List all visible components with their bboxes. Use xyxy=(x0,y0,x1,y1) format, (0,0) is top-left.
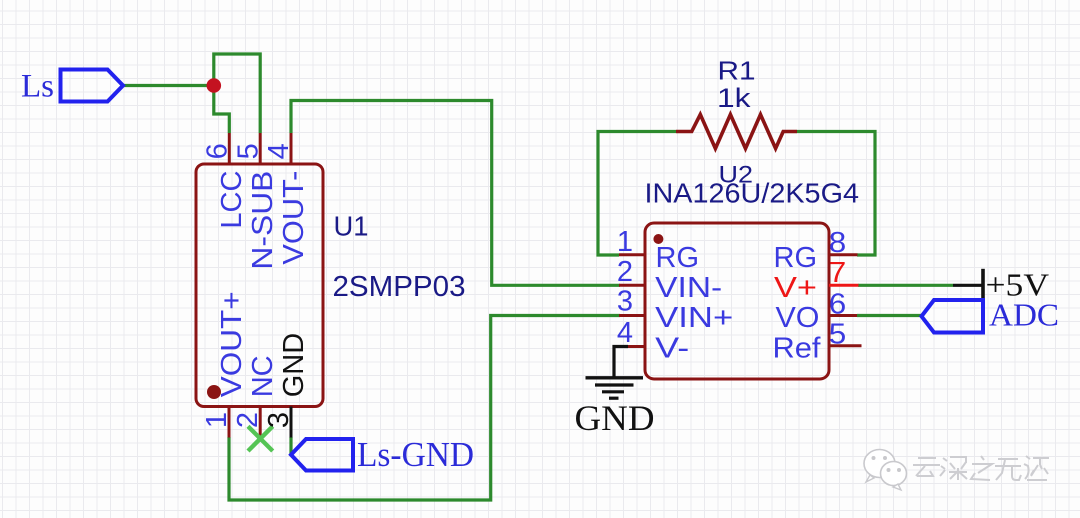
U2 pin 4 stub xyxy=(628,345,645,348)
svg-text:Ls-GND: Ls-GND xyxy=(357,435,474,474)
wire U2 pin 7 to +5V xyxy=(858,284,953,287)
U2 pin 2 stub xyxy=(619,284,645,287)
wire U1 pin 3 to Ls-GND port xyxy=(289,437,292,455)
svg-text:U1: U1 xyxy=(334,211,369,242)
svg-text:ADC: ADC xyxy=(989,297,1059,333)
U1 pin 1 stub xyxy=(228,407,231,438)
U2 pin 6 stub xyxy=(829,314,857,317)
svg-text:INA126U/2K5G4: INA126U/2K5G4 xyxy=(645,177,860,208)
U2 pin 8 stub xyxy=(829,253,858,256)
svg-text:VIN+: VIN+ xyxy=(655,302,733,334)
watermark wechat logo bubble 1 xyxy=(864,450,895,483)
svg-text:R1: R1 xyxy=(718,55,756,85)
svg-text:RG: RG xyxy=(774,242,818,274)
U1 pin 1 marker dot xyxy=(207,385,221,399)
wire U2 pin 6 to ADC port xyxy=(857,314,922,317)
power bar +5V xyxy=(953,269,983,300)
svg-text:VOUT-: VOUT- xyxy=(278,171,310,265)
port Ls-GND xyxy=(291,439,353,471)
svg-text:5: 5 xyxy=(232,143,264,159)
char 无 xyxy=(995,459,1021,480)
svg-text:Ls: Ls xyxy=(21,69,54,105)
ground symbol at U2 pin 4 xyxy=(586,347,644,399)
char 之 xyxy=(971,456,992,480)
U1 pin 5 stub xyxy=(259,133,262,164)
svg-text:6: 6 xyxy=(829,288,847,320)
svg-text:4: 4 xyxy=(617,317,633,349)
svg-text:7: 7 xyxy=(829,257,847,289)
watermark wechat logo bubble 2 xyxy=(881,462,907,491)
svg-text:2: 2 xyxy=(617,256,633,288)
U1 pin 6 stub xyxy=(228,133,231,164)
wire feedback left: U2 pin 1 RG up to resistor xyxy=(598,132,676,256)
svg-text:3: 3 xyxy=(617,286,633,318)
svg-text:2: 2 xyxy=(232,412,264,428)
U2 pin 3 stub xyxy=(619,314,645,317)
U2 pin 5 stub xyxy=(829,344,862,347)
svg-text:GND: GND xyxy=(575,398,655,438)
svg-text:1k: 1k xyxy=(717,83,751,113)
svg-text:Ref: Ref xyxy=(773,333,822,365)
watermark text 云深之无迹 (approximated strokes) xyxy=(913,456,1049,480)
svg-text:VO: VO xyxy=(776,302,820,334)
U2 pin 1 marker dot xyxy=(653,234,663,244)
component U1 body xyxy=(196,164,323,407)
svg-text:N-SUB: N-SUB xyxy=(247,171,279,270)
component U2 body xyxy=(645,223,829,379)
svg-text:GND: GND xyxy=(278,333,310,397)
wire U1 pin 1 to U2 pin 3 VIN+ xyxy=(229,316,620,501)
svg-text:V-: V- xyxy=(655,333,689,365)
U1 pin 2 stub xyxy=(259,407,262,438)
U1 pin 4 stub xyxy=(290,133,293,164)
no-connect X on U1 pin 2 xyxy=(248,426,273,451)
char 迹 xyxy=(1024,456,1049,480)
wire Ls to junction xyxy=(123,84,214,87)
svg-text:3: 3 xyxy=(263,412,295,428)
svg-text:VIN-: VIN- xyxy=(655,272,722,304)
svg-text:NC: NC xyxy=(247,355,279,397)
wire U1 pin 4 to U2 pin 2 VIN- xyxy=(291,101,620,286)
svg-text:1: 1 xyxy=(201,412,233,428)
svg-text:LCC: LCC xyxy=(216,171,248,229)
svg-text:8: 8 xyxy=(829,227,847,259)
svg-text:VOUT+: VOUT+ xyxy=(216,291,248,397)
svg-text:4: 4 xyxy=(263,143,295,159)
junction dot on Ls net xyxy=(207,78,222,93)
wire junction up loop to U1 pin 5 xyxy=(214,54,260,133)
svg-text:1: 1 xyxy=(617,226,633,258)
wire feedback right: resistor to U2 pin 8 RG xyxy=(797,132,875,256)
U1 pin 3 stub (black GND net) xyxy=(290,407,293,438)
svg-text:2SMPP03: 2SMPP03 xyxy=(333,271,466,303)
char 深 xyxy=(940,457,967,480)
wire junction down jog to U1 pin 6 xyxy=(214,84,230,133)
U2 pin 7 stub (red +5V net) xyxy=(829,284,859,287)
port Ls xyxy=(61,70,124,102)
svg-text:5: 5 xyxy=(829,319,847,351)
svg-text:6: 6 xyxy=(202,143,234,159)
svg-text:RG: RG xyxy=(656,242,700,274)
svg-text:V+: V+ xyxy=(774,272,817,304)
char 云 xyxy=(913,458,940,476)
resistor R1 xyxy=(676,115,797,149)
U2 pin 1 stub xyxy=(619,253,645,256)
port ADC xyxy=(922,300,984,333)
